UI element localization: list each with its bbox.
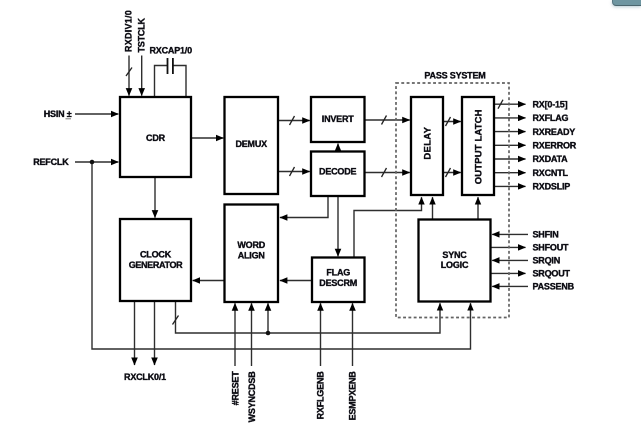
svg-text:WORD: WORD [237,240,265,250]
svg-text:RXREADY: RXREADY [533,127,576,137]
svg-text:WSYNCDSB: WSYNCDSB [247,371,257,423]
svg-text:PASS SYSTEM: PASS SYSTEM [424,71,485,81]
svg-text:#RESET: #RESET [230,371,240,406]
svg-text:ESMPXENB: ESMPXENB [348,371,358,421]
svg-text:RXCAP1/0: RXCAP1/0 [150,46,193,56]
svg-text:RXCLK0/1: RXCLK0/1 [124,372,166,382]
svg-text:SHFIN: SHFIN [533,230,559,240]
svg-text:INVERT: INVERT [322,114,355,124]
svg-text:GENERATOR: GENERATOR [129,260,183,270]
svg-text:CLOCK: CLOCK [140,250,172,260]
svg-text:PASSENB: PASSENB [533,282,575,292]
svg-text:RXDIV1/0: RXDIV1/0 [124,10,134,52]
svg-text:REFCLK: REFCLK [33,157,69,167]
svg-text:TSTCLK: TSTCLK [137,18,147,53]
svg-text:DESCRM: DESCRM [319,278,357,288]
svg-text:SRQIN: SRQIN [533,256,561,266]
svg-text:RXERROR: RXERROR [533,141,577,151]
svg-text:FLAG: FLAG [326,268,350,278]
svg-text:RXFLAG: RXFLAG [533,113,569,123]
svg-text:SYNC: SYNC [442,250,467,260]
svg-text:RXFLGENB: RXFLGENB [316,371,326,420]
svg-text:RXDATA: RXDATA [533,154,569,164]
svg-text:RXDSLIP: RXDSLIP [533,182,571,192]
svg-text:RXCNTL: RXCNTL [533,168,569,178]
svg-text:RX[0-15]: RX[0-15] [533,99,568,109]
svg-text:CDR: CDR [146,133,166,143]
svg-text:OUTPUT LATCH: OUTPUT LATCH [474,109,485,184]
svg-text:DECODE: DECODE [319,167,357,177]
svg-text:LOGIC: LOGIC [441,260,469,270]
svg-text:SRQOUT: SRQOUT [533,269,571,279]
svg-text:ALIGN: ALIGN [238,251,265,261]
svg-text:HSIN ±: HSIN ± [44,109,72,119]
svg-text:DEMUX: DEMUX [235,139,267,149]
svg-text:SHFOUT: SHFOUT [533,243,570,253]
svg-text:DELAY: DELAY [423,126,434,159]
